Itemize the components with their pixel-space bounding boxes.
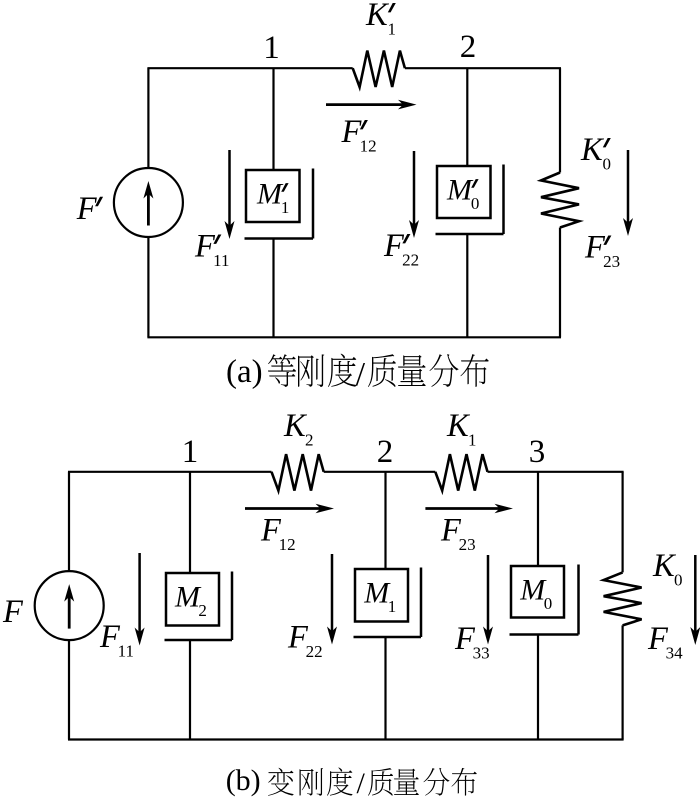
- caption (a) cjk: [268, 354, 489, 393]
- wire node3 branch lower (b): [537, 635, 539, 740]
- svg-text:2: 2: [198, 601, 207, 620]
- wire node3 branch upper (b): [537, 472, 539, 566]
- svg-text:23: 23: [459, 535, 476, 554]
- wire node2 branch upper: [466, 68, 468, 166]
- svg-text:2: 2: [377, 434, 394, 470]
- mass M0: [511, 566, 564, 618]
- svg-text:/: /: [357, 767, 366, 800]
- current source F': [114, 168, 183, 237]
- svg-text:1: 1: [388, 597, 397, 616]
- svg-text:1: 1: [388, 20, 397, 39]
- svg-text:12: 12: [279, 535, 296, 554]
- arrow F12: [245, 507, 322, 510]
- svg-text:23: 23: [603, 252, 620, 271]
- svg-text:2: 2: [460, 29, 477, 65]
- mass M2: [166, 573, 219, 626]
- wire right upper (b): [621, 472, 623, 573]
- svg-text:M: M: [446, 173, 474, 206]
- svg-text:11: 11: [118, 642, 134, 661]
- svg-text:0: 0: [471, 194, 480, 213]
- wire bottom (b): [68, 738, 624, 740]
- wire node1 branch upper: [272, 68, 274, 170]
- arrow F'22: [413, 151, 416, 226]
- svg-text:K: K: [365, 0, 390, 33]
- wire bottom (a): [147, 336, 561, 338]
- svg-text:F: F: [2, 594, 24, 630]
- svg-text:0: 0: [603, 155, 612, 174]
- svg-text:(a): (a): [226, 354, 263, 390]
- wire node2 branch upper (b): [384, 472, 386, 569]
- wire left upper (b): [68, 472, 70, 572]
- spring K2: [272, 454, 324, 490]
- svg-text:F: F: [76, 191, 98, 227]
- wire top-right segment (a): [405, 67, 561, 69]
- svg-text:0: 0: [674, 571, 683, 590]
- svg-text:12: 12: [360, 137, 377, 156]
- svg-text:22: 22: [402, 251, 419, 270]
- wire top seg2 (b): [324, 471, 436, 473]
- spring K'0: [541, 173, 579, 228]
- svg-text:/: /: [356, 356, 366, 393]
- wire left upper (a): [147, 68, 149, 168]
- arrow F'12: [326, 103, 404, 106]
- wire top seg1 (b): [68, 471, 272, 473]
- svg-text:0: 0: [544, 594, 553, 613]
- svg-text:(b): (b): [226, 764, 261, 797]
- spring K1: [435, 454, 487, 490]
- svg-text:3: 3: [529, 434, 546, 470]
- svg-text:33: 33: [473, 644, 490, 663]
- svg-text:M: M: [256, 177, 284, 210]
- spring K'1: [353, 51, 405, 87]
- mass M'0: [437, 166, 491, 218]
- svg-text:1: 1: [263, 30, 280, 66]
- wire node2 branch lower: [466, 234, 468, 337]
- wire right lower (b): [621, 625, 623, 739]
- arrow F34: [694, 555, 697, 633]
- wire left lower (a): [147, 237, 149, 338]
- wire top-left segment (a): [147, 67, 352, 69]
- arrow F33: [487, 555, 490, 633]
- svg-text:34: 34: [666, 644, 684, 663]
- svg-text:2: 2: [305, 431, 314, 450]
- spring K0: [604, 572, 642, 625]
- svg-text:1: 1: [468, 431, 477, 450]
- wire node1 branch lower: [272, 239, 274, 338]
- current source F: [35, 571, 104, 640]
- svg-text:1: 1: [182, 434, 199, 470]
- wire right upper (a): [559, 68, 561, 172]
- wire node1 branch upper (b): [189, 472, 191, 573]
- svg-text:K: K: [580, 132, 605, 168]
- svg-text:22: 22: [306, 642, 323, 661]
- mass M'1: [246, 170, 300, 222]
- arrow F23: [425, 507, 500, 510]
- wire node1 branch lower (b): [189, 640, 191, 740]
- caption (b) cjk: [268, 767, 477, 800]
- arrow F'11: [228, 150, 231, 227]
- arrow F'23: [627, 150, 630, 224]
- svg-text:11: 11: [213, 251, 229, 270]
- wire top seg3 (b): [488, 471, 624, 473]
- wire right lower (a): [559, 228, 561, 338]
- svg-text:1: 1: [281, 198, 290, 217]
- mass M1: [355, 569, 408, 622]
- wire node2 branch lower (b): [384, 637, 386, 740]
- arrow F22: [331, 554, 334, 633]
- wire left lower (b): [68, 640, 70, 740]
- arrow F11: [138, 553, 141, 634]
